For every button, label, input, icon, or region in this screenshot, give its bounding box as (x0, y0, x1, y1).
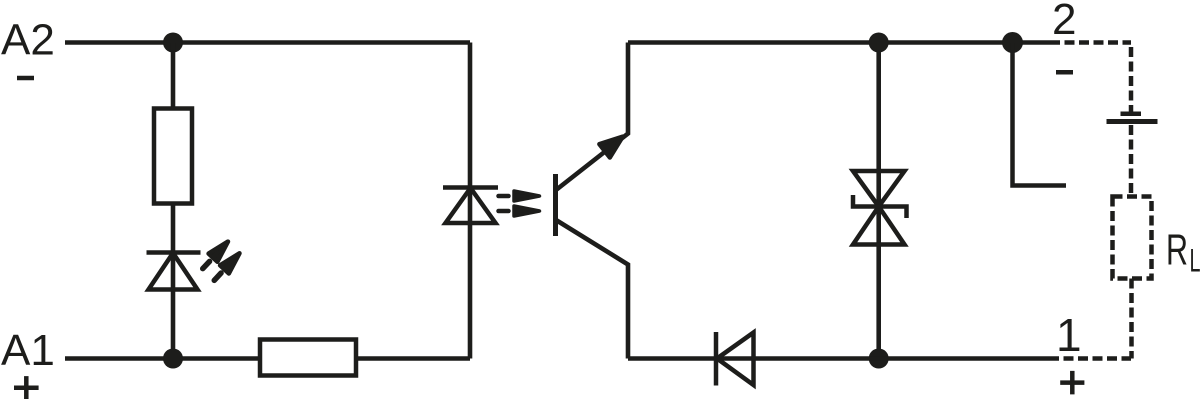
battery negative short bar (1121, 112, 1142, 117)
dashed wire to terminal 1 horizontal (1059, 356, 1131, 361)
LED D1 emission arrow 1 (198, 238, 232, 273)
svg-text:L: L (1190, 243, 1200, 279)
light arrow 1 (499, 191, 540, 201)
minus sign at A2 (17, 76, 34, 81)
resistor R1 (154, 109, 192, 204)
dashed wire RL to terminal 1 (1129, 279, 1134, 359)
wire opto branch vertical (468, 43, 473, 359)
wire R2 to opto branch (356, 356, 470, 361)
LED D1 triangle (149, 253, 198, 290)
wire TVS vertical (876, 43, 881, 359)
junction node TVS bottom (869, 349, 889, 369)
wire A2 top (65, 40, 470, 45)
wire R1 to LED (171, 204, 176, 359)
plus sign at terminal 1 (1060, 371, 1084, 395)
TVS suppressor zener bar (853, 195, 907, 218)
diode D2 triangle (717, 333, 754, 386)
junction node bottom-left (163, 349, 183, 369)
diode D2 cathode bar (714, 332, 719, 386)
phototransistor Q1 emitter arrow (599, 130, 628, 158)
battery positive long bar (1107, 119, 1158, 124)
TVS suppressor top triangle (853, 171, 905, 207)
phototransistor Q1 base bar (553, 174, 558, 236)
wire top right (628, 40, 1060, 45)
svg-text:A2: A2 (1, 16, 55, 65)
junction node TVS top (869, 33, 889, 53)
LED D1 emission arrow 2 (210, 249, 244, 284)
dashed wire terminal 2 to battery (1060, 40, 1131, 45)
junction node top-left (163, 33, 183, 53)
output contact stub (1013, 43, 1067, 186)
resistor R2 (260, 340, 356, 376)
minus sign at terminal 2 (1056, 70, 1073, 75)
svg-text:2: 2 (1052, 0, 1076, 44)
wire left branch vertical (171, 43, 176, 111)
optocoupler LED cathode bar (443, 185, 498, 190)
LED D1 cathode bar (147, 250, 201, 255)
plus sign at A1 (14, 376, 39, 399)
svg-text:A1: A1 (1, 326, 55, 375)
load resistor RL dashed box (1113, 197, 1152, 279)
wire bottom right (628, 356, 1059, 361)
TVS suppressor bottom triangle (853, 207, 905, 245)
phototransistor Q1 collector lead (556, 220, 628, 359)
light arrow 2 (499, 206, 540, 216)
optocoupler LED triangle (446, 188, 496, 223)
terminal node 2 (1002, 32, 1023, 53)
phototransistor Q1 emitter lead (556, 43, 628, 191)
dashed wire battery drop (1129, 43, 1134, 113)
svg-text:1: 1 (1056, 309, 1082, 361)
dashed wire battery to RL (1129, 125, 1134, 197)
svg-text:R: R (1166, 226, 1188, 275)
wire A1 bottom (65, 356, 260, 361)
